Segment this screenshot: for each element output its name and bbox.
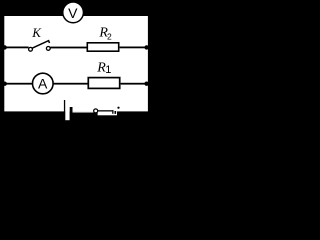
- white pocket under plug: [98, 111, 117, 115]
- wire row2 left segment: [4, 47, 28, 49]
- ammeter U2 disk: [33, 73, 54, 94]
- plug corner blob: [117, 112, 120, 114]
- svg-text:2: 2: [107, 32, 112, 42]
- circuit interior background: [4, 16, 148, 111]
- svg-text:A: A: [38, 75, 48, 91]
- resistor R1 box: [88, 78, 119, 89]
- plug tip dot: [117, 107, 119, 109]
- lower white strip battery to contact: [73, 111, 94, 112]
- junction dot left row3: [2, 82, 6, 86]
- wire contact circle to plug: [98, 110, 113, 111]
- resistor R2 box: [87, 43, 118, 51]
- plug contact circle: [94, 109, 98, 113]
- plug left terminal bar: [112, 110, 113, 114]
- wire row3 middle segment: [53, 83, 88, 85]
- battery short electrode: [70, 107, 73, 120]
- voltmeter U1 disk: [63, 2, 84, 23]
- wire row3 left segment: [4, 83, 32, 85]
- wire row2 middle segment: [50, 47, 86, 49]
- switch K right contact: [46, 47, 50, 51]
- junction dot right row2: [144, 45, 148, 49]
- switch K left contact: [29, 47, 33, 51]
- wire row3 right segment: [121, 83, 148, 85]
- plug right terminal bar: [115, 111, 117, 114]
- battery gap slot: [65, 110, 70, 120]
- junction dot left row2: [2, 45, 6, 49]
- svg-text:1: 1: [105, 64, 111, 76]
- junction dot right row3: [144, 82, 148, 86]
- battery long electrode: [64, 100, 65, 120]
- svg-text:V: V: [68, 5, 78, 21]
- svg-text:K: K: [31, 25, 42, 40]
- switch K blade: [32, 41, 50, 49]
- wire row2 right segment: [120, 47, 148, 49]
